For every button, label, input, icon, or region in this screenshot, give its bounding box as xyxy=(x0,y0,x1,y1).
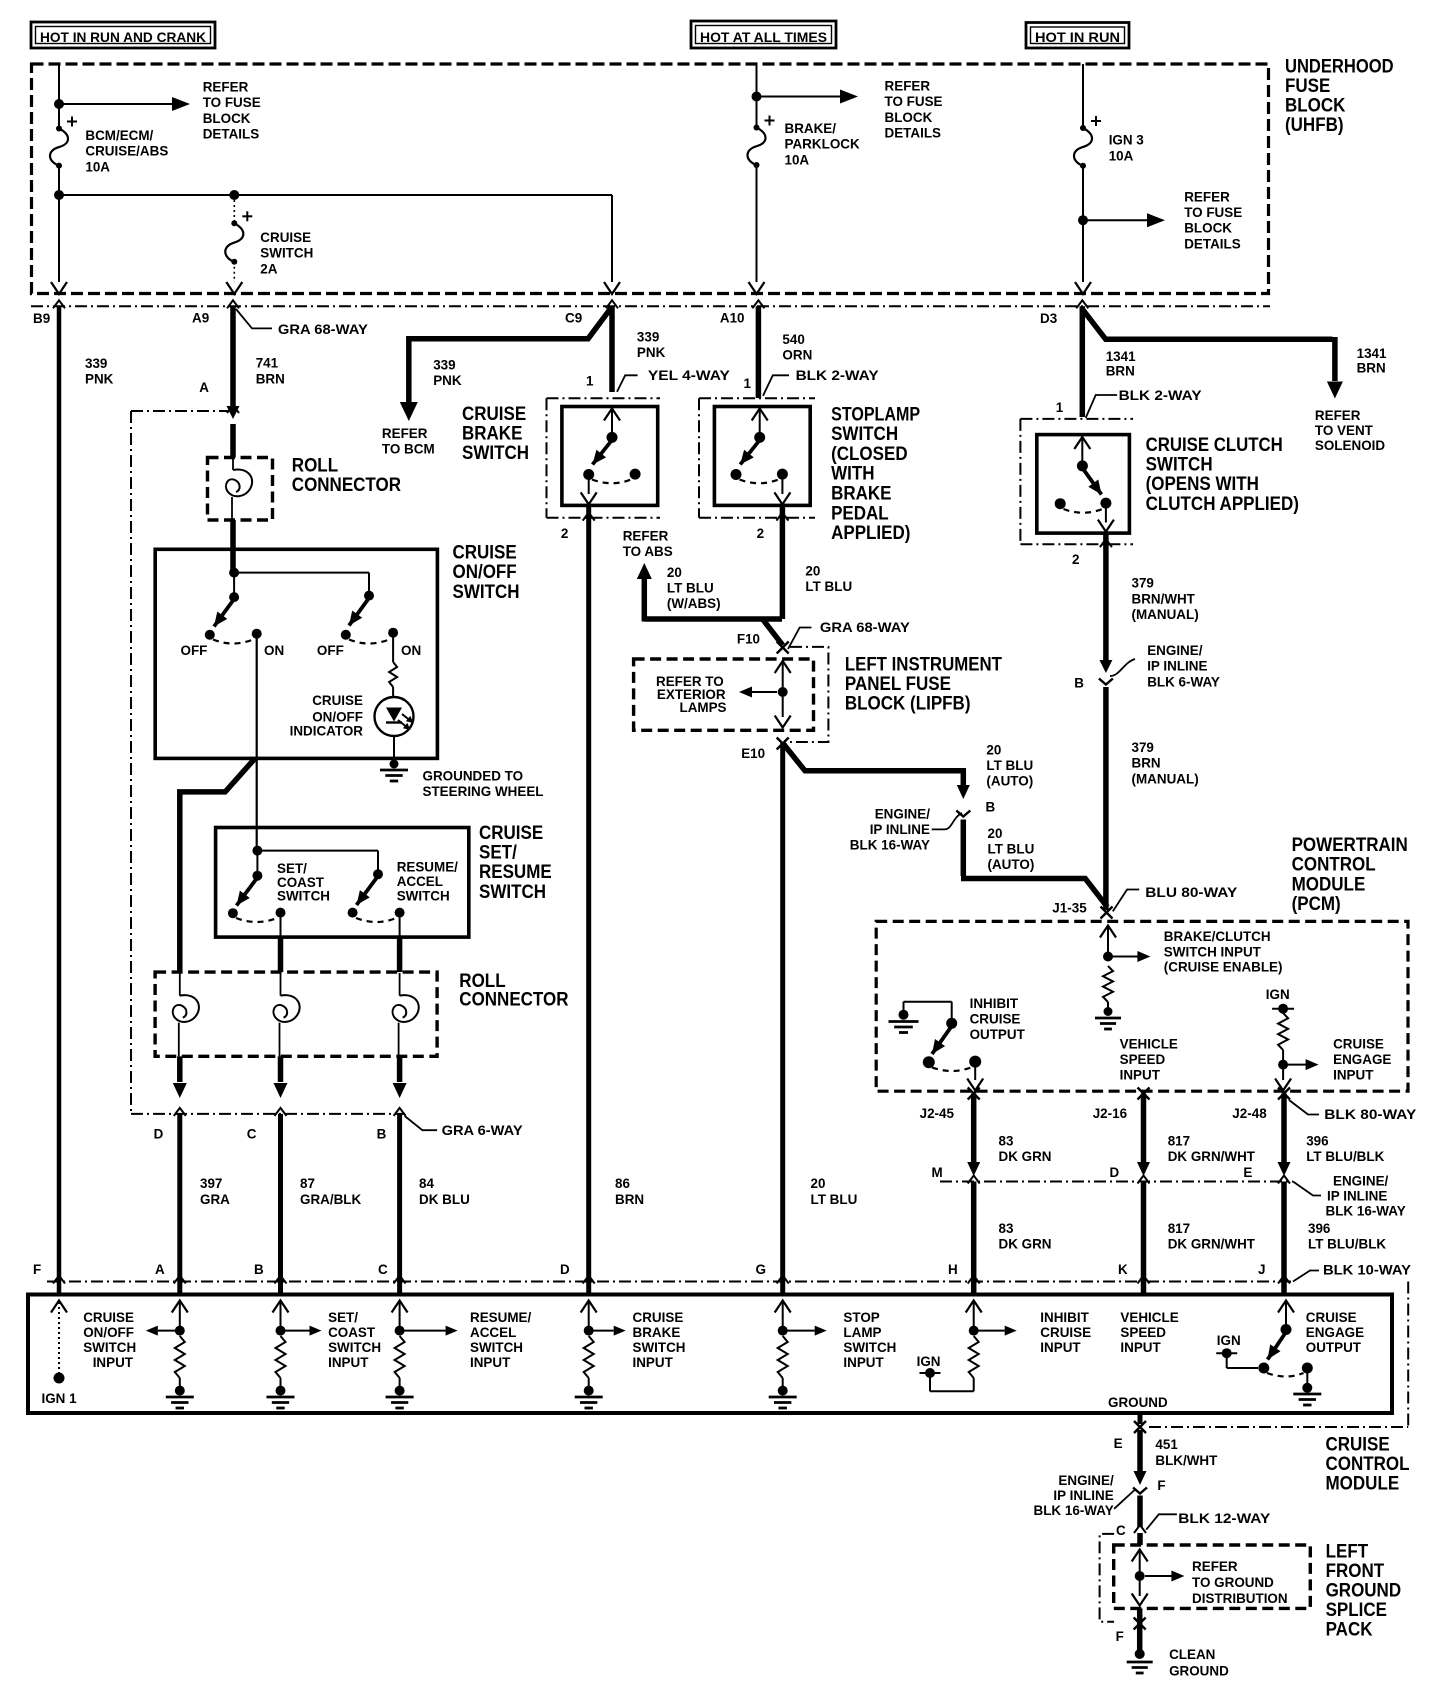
svg-text:PNK: PNK xyxy=(637,344,665,360)
clean ground symbol xyxy=(1127,1649,1153,1673)
svg-text:F10: F10 xyxy=(737,630,760,646)
svg-text:LT BLU: LT BLU xyxy=(667,580,714,596)
pin H of module xyxy=(948,1261,980,1284)
svg-text:CLUTCH APPLIED): CLUTCH APPLIED) xyxy=(1146,493,1299,515)
label 83 DK GRN (lower) xyxy=(999,1220,1052,1252)
svg-text:STOP: STOP xyxy=(843,1309,879,1325)
pin F10 of left instrument panel fuse block xyxy=(737,630,789,653)
svg-text:BLOCK: BLOCK xyxy=(885,109,933,125)
wire 84 DK BLU to module pin C xyxy=(397,1114,402,1294)
left instrument panel fuse block dashed box xyxy=(634,659,814,730)
pin J2-48 of PCM xyxy=(1232,1088,1290,1122)
svg-text:K: K xyxy=(1118,1261,1128,1277)
svg-text:LT BLU: LT BLU xyxy=(805,578,852,594)
label GROUNDED TO STEERING WHEEL xyxy=(423,768,544,800)
label 87 GRA/BLK xyxy=(300,1175,361,1207)
connector GRA 68-WAY bulkhead dash-dot line xyxy=(31,305,1270,307)
svg-text:GRA 68-WAY: GRA 68-WAY xyxy=(278,321,369,337)
svg-text:G: G xyxy=(756,1261,767,1277)
pin F of splice pack xyxy=(1116,1618,1146,1645)
pin A10 xyxy=(720,300,765,325)
connector GRA 6-WAY dash-dot line xyxy=(131,1113,405,1115)
wire from HOT AT ALL TIMES into fuse block xyxy=(756,64,758,128)
svg-text:POWERTRAIN: POWERTRAIN xyxy=(1292,834,1408,856)
svg-text:BLK/WHT: BLK/WHT xyxy=(1155,1452,1217,1468)
inline connector ENGINE/IP BLK 16-WAY on AUTO wire, pin B xyxy=(956,799,995,817)
svg-text:PARKLOCK: PARKLOCK xyxy=(785,136,860,152)
cruise clutch switch connector dash-dot boundary xyxy=(1020,419,1133,544)
wire 817 DK GRN/WHT to module pin K xyxy=(1141,1182,1147,1295)
svg-text:REFER: REFER xyxy=(203,78,249,94)
svg-text:M: M xyxy=(932,1164,943,1180)
pin D of module xyxy=(560,1261,595,1284)
label POWERTRAIN CONTROL MODULE (PCM) xyxy=(1292,834,1408,915)
svg-text:(AUTO): (AUTO) xyxy=(988,856,1035,872)
svg-text:(MANUAL): (MANUAL) xyxy=(1132,770,1199,786)
svg-text:A: A xyxy=(199,379,209,395)
wire bus inside UHFB from fuse to C9 drop xyxy=(54,166,612,200)
label 84 DK BLU xyxy=(419,1175,470,1207)
svg-text:339: 339 xyxy=(433,356,456,372)
roll connector coil C xyxy=(273,973,299,1056)
wire 20 LT BLU from E10 to module pin G xyxy=(780,742,785,1294)
svg-text:GRA/BLK: GRA/BLK xyxy=(300,1191,361,1207)
svg-text:IGN 3: IGN 3 xyxy=(1109,132,1144,148)
label 83 DK GRN (upper) xyxy=(999,1133,1052,1165)
label CRUISE SET/RESUME SWITCH xyxy=(479,822,552,903)
svg-text:LT BLU: LT BLU xyxy=(811,1191,858,1207)
wire 379 BRN (MANUAL) to PCM J1-35 xyxy=(1103,687,1109,910)
svg-text:STEERING WHEEL: STEERING WHEEL xyxy=(423,783,544,799)
label 396 LT BLU/BLK (lower) xyxy=(1308,1220,1386,1252)
set/coast switch throw xyxy=(228,878,286,923)
svg-text:CRUISE: CRUISE xyxy=(260,229,311,245)
svg-text:(CRUISE ENABLE): (CRUISE ENABLE) xyxy=(1164,959,1283,975)
svg-text:379: 379 xyxy=(1132,575,1155,591)
wire set/coast output xyxy=(280,913,282,973)
svg-text:H: H xyxy=(948,1261,958,1277)
svg-text:SWITCH: SWITCH xyxy=(260,245,313,261)
label CRUISE ON/OFF INDICATOR xyxy=(290,692,364,739)
inline connector ENGINE/IP BLK 16-WAY dash-dot line xyxy=(940,1181,1293,1183)
left front ground splice pack dashed box xyxy=(1114,1545,1311,1608)
roll connector (lower) dashed box xyxy=(155,972,437,1056)
label REFER TO BCM xyxy=(382,425,435,457)
cruise control module box xyxy=(28,1295,1392,1414)
svg-text:SWITCH: SWITCH xyxy=(470,1339,523,1355)
svg-text:F: F xyxy=(1157,1477,1166,1493)
wire from ON contact down to set/resume switch xyxy=(256,634,258,851)
label LEFT INSTRUMENT PANEL FUSE BLOCK (LIPFB) xyxy=(845,654,1002,715)
svg-text:ENGINE/: ENGINE/ xyxy=(1333,1172,1388,1188)
svg-text:MODULE: MODULE xyxy=(1326,1473,1400,1495)
label 451 BLK/WHT xyxy=(1155,1436,1217,1468)
svg-text:ENGINE/: ENGINE/ xyxy=(1058,1472,1113,1488)
svg-text:83: 83 xyxy=(999,1220,1014,1236)
svg-text:IGN 1: IGN 1 xyxy=(42,1390,77,1406)
connector BLK 10-WAY dash-dot line xyxy=(47,1281,1293,1283)
PCM cruise engage input circuit with IGN xyxy=(1266,986,1319,1091)
module pin F input IGN 1 xyxy=(51,1301,67,1384)
svg-text:SPEED: SPEED xyxy=(1120,1051,1166,1067)
svg-text:REFER: REFER xyxy=(1315,407,1361,423)
wire arrow into roll connector xyxy=(227,406,240,458)
svg-text:OUTPUT: OUTPUT xyxy=(970,1026,1026,1042)
svg-text:HOT IN RUN: HOT IN RUN xyxy=(1035,29,1120,45)
label GRA 68-WAY with leader at A9 xyxy=(236,309,369,337)
svg-text:PNK: PNK xyxy=(433,372,461,388)
label BLK 10-WAY with leader xyxy=(1293,1262,1412,1282)
svg-text:CRUISE: CRUISE xyxy=(1333,1036,1384,1052)
label GRA 68-WAY with leader at F10 xyxy=(788,619,911,649)
label CRUISE BRAKE SWITCH xyxy=(462,403,529,464)
module pin H circuit INHIBIT CRUISE INPUT with IGN xyxy=(920,1301,1017,1392)
set/resume common node xyxy=(252,846,383,881)
svg-text:PACK: PACK xyxy=(1326,1619,1373,1641)
label RESUME/ACCEL SWITCH INPUT xyxy=(470,1309,531,1370)
svg-text:BRAKE/: BRAKE/ xyxy=(785,120,837,136)
svg-text:BLK 6-WAY: BLK 6-WAY xyxy=(1147,673,1220,689)
label BCM/ECM/CRUISE/ABS 10A xyxy=(85,127,168,174)
svg-text:GROUNDED TO: GROUNDED TO xyxy=(423,768,524,784)
roll connector coil B xyxy=(393,973,419,1056)
svg-text:DK GRN: DK GRN xyxy=(999,1236,1052,1252)
wire 20 LT BLU (AUTO) branch from E10 toward PCM xyxy=(783,743,970,799)
svg-text:BRN: BRN xyxy=(615,1191,644,1207)
label ENGINE/ IP INLINE BLK 16-WAY (below module) with leader xyxy=(1034,1472,1136,1518)
svg-text:TO FUSE: TO FUSE xyxy=(1184,204,1242,220)
svg-text:B: B xyxy=(254,1261,264,1277)
on/off switch pole 2 throw xyxy=(341,598,398,644)
wire 339 PNK from C9 down to cruise brake switch xyxy=(609,306,615,392)
svg-text:INPUT: INPUT xyxy=(328,1354,369,1370)
svg-text:SWITCH: SWITCH xyxy=(328,1339,381,1355)
svg-text:INPUT: INPUT xyxy=(93,1354,134,1370)
wire 540 ORN from A10 down to stoplamp switch xyxy=(756,306,762,398)
svg-text:J: J xyxy=(1258,1261,1266,1277)
module pin J circuit CRUISE ENGAGE OUTPUT switch xyxy=(1216,1301,1321,1406)
wire 1341 BRN branch to vent solenoid xyxy=(1082,308,1343,399)
svg-text:GRA: GRA xyxy=(200,1191,230,1207)
svg-text:20: 20 xyxy=(988,825,1003,841)
svg-text:CONNECTOR: CONNECTOR xyxy=(292,474,401,496)
svg-text:CONNECTOR: CONNECTOR xyxy=(459,989,568,1011)
label 339 PNK (branch to BCM) xyxy=(433,356,461,388)
label 20 LT BLU (W/ABS) xyxy=(667,564,721,611)
svg-text:CRUISE: CRUISE xyxy=(1306,1309,1357,1325)
svg-text:BRAKE: BRAKE xyxy=(633,1324,681,1340)
svg-text:LT BLU: LT BLU xyxy=(988,841,1035,857)
label CRUISE BRAKE SWITCH INPUT xyxy=(633,1309,686,1370)
pin 2 of cruise brake switch xyxy=(561,513,595,541)
label LEFT FRONT GROUND SPLICE PACK xyxy=(1326,1541,1402,1641)
svg-text:DETAILS: DETAILS xyxy=(885,125,942,141)
svg-text:(AUTO): (AUTO) xyxy=(986,773,1033,789)
svg-text:ENGAGE: ENGAGE xyxy=(1333,1051,1391,1067)
label ENGINE/ IP INLINE BLK 6-WAY with leader xyxy=(1110,642,1221,689)
svg-text:DK BLU: DK BLU xyxy=(419,1191,470,1207)
svg-text:INDICATOR: INDICATOR xyxy=(290,723,363,739)
svg-text:IP INLINE: IP INLINE xyxy=(1147,658,1207,674)
wire A9 drop to bottom of UHFB xyxy=(226,262,242,294)
svg-text:BLOCK: BLOCK xyxy=(203,110,251,126)
svg-text:DK GRN/WHT: DK GRN/WHT xyxy=(1168,1148,1256,1164)
resistor for cruise on/off indicator xyxy=(389,633,397,697)
svg-text:(OPENS WITH: (OPENS WITH xyxy=(1146,473,1259,495)
cruise brake switch element xyxy=(581,409,641,505)
svg-text:BLK 16-WAY: BLK 16-WAY xyxy=(1034,1502,1115,1518)
svg-text:ENGAGE: ENGAGE xyxy=(1306,1324,1364,1340)
roll connector (upper) dashed box xyxy=(208,458,273,521)
svg-text:BLK 12-WAY: BLK 12-WAY xyxy=(1178,1510,1271,1526)
svg-text:2: 2 xyxy=(1072,551,1080,567)
label CLEAN GROUND xyxy=(1169,1646,1229,1679)
label SET/COAST SWITCH xyxy=(277,860,330,904)
svg-text:OFF: OFF xyxy=(317,642,344,658)
svg-text:A10: A10 xyxy=(720,310,745,326)
label ENGINE/ IP INLINE BLK 16-WAY (J2 rows) with leader xyxy=(1293,1172,1406,1218)
svg-text:IP INLINE: IP INLINE xyxy=(1053,1487,1113,1503)
LED cruise on/off indicator xyxy=(375,697,414,736)
svg-text:20: 20 xyxy=(805,563,820,579)
svg-text:ON: ON xyxy=(264,642,284,658)
svg-text:DETAILS: DETAILS xyxy=(1184,235,1241,251)
label 817 DK GRN/WHT (lower) xyxy=(1168,1220,1256,1252)
label 1341 BRN (right) xyxy=(1357,345,1387,375)
wire 86 BRN from brake switch to module pin D xyxy=(586,505,591,1294)
svg-text:PEDAL: PEDAL xyxy=(831,502,889,524)
svg-text:1: 1 xyxy=(586,373,594,389)
svg-text:B: B xyxy=(986,799,996,815)
wire 339 PNK from B9 to cruise control module pin F xyxy=(57,306,62,1294)
label STOP LAMP SWITCH INPUT xyxy=(843,1309,896,1370)
svg-text:BRN: BRN xyxy=(1357,359,1386,375)
svg-text:20: 20 xyxy=(811,1175,826,1191)
label 379 BRN (MANUAL) xyxy=(1132,739,1199,786)
label IGN 3 10A xyxy=(1109,132,1144,164)
svg-text:BLOCK (LIPFB): BLOCK (LIPFB) xyxy=(845,693,971,715)
svg-text:ENGINE/: ENGINE/ xyxy=(1147,642,1202,658)
svg-text:BLK 2-WAY: BLK 2-WAY xyxy=(1119,387,1203,403)
fuse IGN 3 10A xyxy=(1074,116,1101,169)
pin K of module xyxy=(1118,1261,1150,1284)
label INHIBIT CRUISE INPUT xyxy=(1040,1309,1091,1355)
svg-text:BLK 80-WAY: BLK 80-WAY xyxy=(1324,1106,1417,1122)
svg-text:1: 1 xyxy=(744,375,752,391)
wire 1341 BRN from D3 down to clutch switch xyxy=(1080,306,1086,417)
wire 20 LT BLU (W/ABS) branch to ABS xyxy=(637,563,782,622)
svg-text:CRUISE: CRUISE xyxy=(1040,1324,1091,1340)
wire 339 PNK branch to BCM xyxy=(400,308,611,421)
power tag HOT IN RUN AND CRANK xyxy=(31,22,215,48)
module pin D circuit CRUISE BRAKE SWITCH INPUT xyxy=(575,1301,626,1409)
on/off switch common node xyxy=(229,568,374,603)
svg-text:IGN: IGN xyxy=(1266,986,1290,1002)
label VEHICLE SPEED INPUT (PCM) xyxy=(1120,1036,1178,1083)
wire 83 DK GRN to module pin H xyxy=(971,1182,977,1295)
svg-text:84: 84 xyxy=(419,1175,434,1191)
pin G of module xyxy=(756,1261,789,1284)
resume/accel switch throw xyxy=(348,876,405,922)
pin D (16-way) xyxy=(1110,1164,1150,1184)
svg-text:REFER: REFER xyxy=(623,528,669,544)
ground at steering wheel xyxy=(380,760,408,782)
svg-text:LAMP: LAMP xyxy=(843,1324,881,1340)
svg-text:ACCEL: ACCEL xyxy=(470,1324,517,1340)
label BLK 80-WAY with leader xyxy=(1289,1100,1417,1122)
power tag HOT IN RUN xyxy=(1026,23,1129,49)
wire A10 drop to bottom of UHFB xyxy=(749,165,765,294)
svg-text:SWITCH: SWITCH xyxy=(479,881,546,903)
steering column boundary dash-dot xyxy=(131,411,231,1114)
label 339 PNK (B9 wire) xyxy=(85,355,113,387)
svg-text:BRN: BRN xyxy=(1106,362,1135,378)
svg-text:2: 2 xyxy=(757,525,765,541)
label 396 LT BLU/BLK (upper) xyxy=(1306,1133,1384,1165)
svg-text:D: D xyxy=(1110,1164,1120,1180)
svg-text:540: 540 xyxy=(782,331,805,347)
svg-text:451: 451 xyxy=(1155,1436,1178,1452)
svg-text:SWITCH: SWITCH xyxy=(462,442,529,464)
module harness boundary dash-dot right side xyxy=(1149,1282,1408,1428)
svg-text:VEHICLE: VEHICLE xyxy=(1120,1309,1178,1325)
pin E10 of LIPFB xyxy=(741,738,789,762)
svg-text:CRUISE/ABS: CRUISE/ABS xyxy=(85,143,168,159)
svg-text:(CLOSED: (CLOSED xyxy=(831,443,908,465)
svg-text:SPEED: SPEED xyxy=(1120,1324,1166,1340)
label GRA 6-WAY with leader xyxy=(405,1116,524,1138)
label 20 LT BLU (AUTO) upper xyxy=(986,742,1033,789)
svg-text:CRUISE: CRUISE xyxy=(633,1309,684,1325)
label CRUISE ON/OFF SWITCH INPUT xyxy=(83,1309,136,1370)
label 20 LT BLU (right) xyxy=(805,563,852,595)
wire 741 BRN from A9 to roll connector xyxy=(230,306,236,410)
svg-text:339: 339 xyxy=(85,355,108,371)
label 397 GRA xyxy=(200,1175,230,1207)
PCM brake/clutch switch input circuit xyxy=(1100,926,1150,1017)
svg-text:20: 20 xyxy=(986,742,1001,758)
label 86 BRN xyxy=(615,1175,644,1207)
wire into splice pack xyxy=(1137,1533,1143,1545)
svg-text:TO GROUND: TO GROUND xyxy=(1192,1574,1274,1590)
svg-text:OUTPUT: OUTPUT xyxy=(1306,1339,1362,1355)
svg-text:1: 1 xyxy=(1056,399,1064,415)
svg-text:PNK: PNK xyxy=(85,371,113,387)
label UNDERHOOD FUSE BLOCK (UHFB) xyxy=(1285,56,1394,137)
svg-text:YEL 4-WAY: YEL 4-WAY xyxy=(648,367,731,383)
fuse CRUISE SWITCH 2A xyxy=(225,211,252,264)
wire 20 LT BLU from stoplamp switch down xyxy=(780,505,786,619)
svg-text:E10: E10 xyxy=(741,745,765,761)
svg-text:397: 397 xyxy=(200,1175,223,1191)
svg-text:MODULE: MODULE xyxy=(1292,873,1366,895)
svg-text:RESUME/: RESUME/ xyxy=(470,1309,531,1325)
svg-text:COAST: COAST xyxy=(328,1324,375,1340)
svg-text:INPUT: INPUT xyxy=(1120,1339,1161,1355)
label REFER TO ABS xyxy=(623,528,673,560)
PCM inhibit cruise output circuit ground xyxy=(889,1010,919,1033)
svg-text:A9: A9 xyxy=(192,310,209,326)
wire C9 drop inside UHFB xyxy=(604,195,620,294)
inline connector ENGINE/IP BLK 16-WAY pin F below module xyxy=(1133,1477,1166,1494)
wire to BLK 12-WAY connector, pin C xyxy=(1116,1496,1146,1539)
label VEHICLE SPEED INPUT (module) xyxy=(1120,1309,1178,1355)
svg-text:F: F xyxy=(1116,1628,1125,1644)
pin F of module xyxy=(33,1261,65,1284)
cruise clutch switch box xyxy=(1037,435,1130,533)
svg-text:CRUISE: CRUISE xyxy=(970,1011,1021,1027)
label 741 BRN xyxy=(256,355,285,387)
svg-text:C9: C9 xyxy=(565,310,582,326)
cruise brake switch box xyxy=(562,407,658,506)
pin J1-35 of PCM xyxy=(1052,900,1112,919)
svg-text:B9: B9 xyxy=(33,310,50,326)
wire resume/accel output xyxy=(399,913,401,973)
pin 1 of cruise brake switch with YEL 4-WAY label xyxy=(586,367,731,392)
svg-text:TO VENT: TO VENT xyxy=(1315,422,1373,438)
label 817 DK GRN/WHT (upper) xyxy=(1168,1133,1256,1165)
svg-text:BLK 2-WAY: BLK 2-WAY xyxy=(796,367,880,383)
ground inside PCM at brake/clutch input xyxy=(1095,1018,1121,1029)
svg-text:10A: 10A xyxy=(85,158,110,174)
svg-text:817: 817 xyxy=(1168,1133,1191,1149)
wire 20 LT BLU (AUTO) to PCM J1-35 xyxy=(961,820,1107,908)
pin B of module xyxy=(254,1261,287,1284)
label BLU 80-WAY with leader xyxy=(1113,884,1238,911)
svg-text:339: 339 xyxy=(637,328,660,344)
svg-text:J2-48: J2-48 xyxy=(1232,1105,1267,1121)
stoplamp switch element xyxy=(731,409,791,505)
svg-text:IGN: IGN xyxy=(917,1353,941,1369)
label ROLL CONNECTOR (upper) xyxy=(292,455,401,497)
svg-text:GROUND: GROUND xyxy=(1108,1394,1168,1410)
label REFER TO FUSE BLOCK DETAILS (center) xyxy=(885,77,943,140)
svg-text:CONTROL: CONTROL xyxy=(1292,854,1376,876)
splice pack dash-dot bracket xyxy=(1100,1534,1115,1622)
svg-text:HOT IN RUN AND CRANK: HOT IN RUN AND CRANK xyxy=(40,29,206,45)
svg-text:SWITCH: SWITCH xyxy=(83,1339,136,1355)
power tag HOT AT ALL TIMES xyxy=(691,21,836,48)
label SET/COAST SWITCH INPUT xyxy=(328,1309,381,1370)
svg-text:E: E xyxy=(1114,1435,1123,1451)
svg-text:DK GRN/WHT: DK GRN/WHT xyxy=(1168,1236,1256,1252)
label STOPLAMP SWITCH (CLOSED WITH BRAKE PEDAL APPLIED) xyxy=(831,403,920,544)
svg-text:INPUT: INPUT xyxy=(1040,1339,1081,1355)
svg-text:86: 86 xyxy=(615,1175,630,1191)
module pin C circuit RESUME/ACCEL SWITCH INPUT xyxy=(386,1301,458,1409)
wire 83 DK GRN from J2-45 xyxy=(967,1094,980,1177)
svg-text:SWITCH: SWITCH xyxy=(633,1339,686,1355)
wire D3 drop to bottom of UHFB xyxy=(1075,282,1091,294)
label CRUISE ON/OFF SWITCH xyxy=(453,542,520,603)
label 339 PNK (right of C9) xyxy=(637,328,665,360)
svg-text:SET/: SET/ xyxy=(328,1309,358,1325)
svg-text:BRN/WHT: BRN/WHT xyxy=(1132,590,1196,606)
svg-text:SWITCH INPUT: SWITCH INPUT xyxy=(1164,943,1262,959)
svg-text:BLK 16-WAY: BLK 16-WAY xyxy=(1326,1203,1407,1219)
svg-text:OFF: OFF xyxy=(181,642,208,658)
wire 396 LT BLU/BLK from J2-48 xyxy=(1278,1094,1291,1177)
svg-text:IP INLINE: IP INLINE xyxy=(1327,1188,1387,1204)
svg-text:LT BLU/BLK: LT BLU/BLK xyxy=(1308,1236,1386,1252)
wire 451 BLK/WHT from module pin E xyxy=(1134,1413,1147,1485)
svg-text:817: 817 xyxy=(1168,1220,1191,1236)
wire from roll connector into cruise on/off switch xyxy=(230,520,236,573)
svg-text:BLK 16-WAY: BLK 16-WAY xyxy=(850,836,931,852)
pin C of GRA 6-WAY xyxy=(247,1108,287,1142)
svg-text:741: 741 xyxy=(256,355,279,371)
svg-text:ENGINE/: ENGINE/ xyxy=(875,806,930,822)
